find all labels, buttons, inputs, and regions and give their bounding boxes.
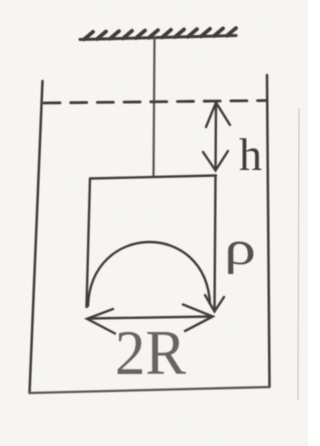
- string: [154, 37, 155, 177]
- block top edge: [90, 176, 216, 179]
- block left edge: [87, 179, 91, 308]
- svg-text:h: h: [239, 129, 262, 180]
- liquid surface dashed line: [44, 101, 266, 104]
- h arrow shaft: [214, 103, 217, 170]
- container right wall: [267, 75, 270, 387]
- block right edge (depth arrow): [215, 176, 216, 312]
- block right edge arrowhead: [205, 295, 224, 312]
- container bottom: [30, 387, 270, 393]
- svg-text:ρ: ρ: [224, 222, 256, 275]
- 2R right arrowhead: [183, 305, 213, 332]
- ceiling hatching: [84, 28, 236, 39]
- container left wall: [30, 81, 43, 393]
- 2R arrow shaft: [88, 317, 212, 319]
- ceiling line: [80, 36, 236, 40]
- svg-text:2R: 2R: [115, 318, 186, 388]
- faint page-edge streak: [298, 108, 299, 400]
- h arrow bottom head: [203, 151, 228, 171]
- 2R left arrowhead: [87, 309, 115, 334]
- dome arc: [88, 242, 210, 306]
- h arrow top head: [206, 103, 230, 128]
